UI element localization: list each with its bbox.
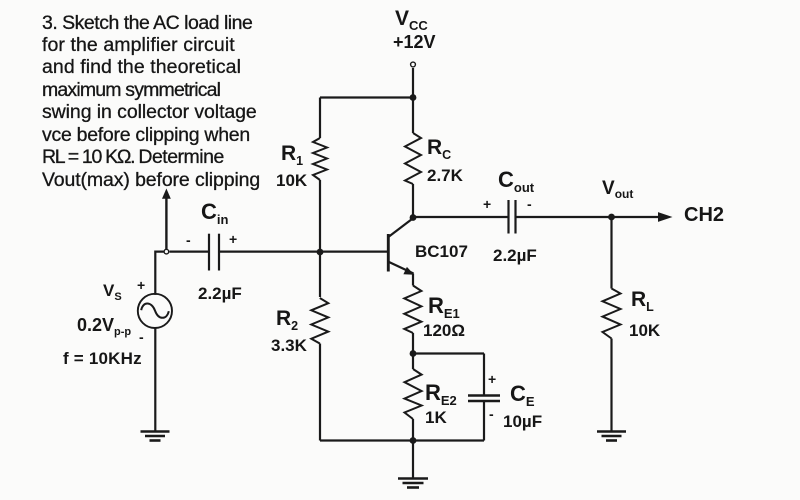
wire: emitter to RE1	[412, 274, 414, 286]
wire: Cout to Vout node	[517, 216, 612, 218]
label 1K (RE2)	[425, 408, 447, 428]
label 2.2uF (Cout)	[493, 246, 537, 266]
label R1	[281, 142, 303, 168]
node: source output terminal (open circle)	[164, 249, 169, 254]
wire: bottom horizontal rail	[320, 439, 484, 441]
wire: R2 bottom to bottom rail	[319, 344, 321, 441]
wire: RL bottom to ground	[610, 339, 612, 432]
wire: Vout node to CH2 arrow	[612, 216, 661, 218]
Vcc terminal circle	[411, 62, 416, 67]
label RE2	[425, 380, 457, 408]
label CH2	[684, 204, 724, 227]
resistor R2 (zigzag)	[311, 298, 328, 344]
label 2.7K (Rc)	[427, 166, 463, 186]
label 10uF (CE)	[503, 412, 542, 432]
node: Vout node	[608, 214, 615, 221]
transistor Q1 emitter lead	[389, 262, 414, 274]
node: base junction	[317, 249, 324, 256]
wire: junction down to Rc top	[412, 98, 414, 134]
wire: RE junction down to RE2	[412, 354, 414, 370]
label BC107	[415, 242, 468, 262]
label Vcc	[395, 7, 428, 33]
wire: top horizontal rail to R1 branch	[320, 96, 413, 98]
label R2	[276, 307, 298, 333]
label plus (Cout)	[483, 196, 491, 212]
label 0.2Vp-p	[77, 315, 131, 338]
capacitor CE bottom plate	[468, 400, 500, 402]
transistor Q1 emitter arrowhead	[403, 267, 414, 275]
resistor R1 (zigzag)	[313, 138, 327, 180]
wire: Vout node down to RL	[610, 217, 612, 289]
label 10K (RL)	[629, 321, 660, 341]
ground (below RL)	[597, 432, 626, 441]
wire: CE bottom plate to bottom rail	[483, 402, 485, 441]
transistor Q1 collector lead	[389, 218, 414, 237]
capacitor CE top plate	[468, 394, 500, 396]
capacitor Cout right plate	[514, 200, 516, 234]
label Rc	[427, 136, 451, 162]
wire: R1 branch down from top rail	[319, 98, 321, 139]
label plus (CE)	[488, 371, 496, 387]
label Cin	[201, 199, 228, 227]
label minus (Cin)	[186, 232, 191, 248]
arrowhead to CH2	[658, 212, 673, 222]
label minus (CE)	[489, 406, 494, 422]
label Vout	[602, 178, 633, 201]
node: bottom rail junction	[410, 437, 417, 444]
wire: Rc bottom to collector node	[412, 184, 414, 218]
wire: R1 bottom to base junction	[319, 180, 321, 297]
wire: RE junction to CE branch	[413, 352, 484, 354]
label 3.3K (R2)	[271, 336, 307, 356]
resistor RE2 (zigzag)	[405, 369, 422, 419]
resistor RE1 (zigzag)	[404, 286, 421, 334]
label minus (VS)	[139, 329, 144, 345]
label f = 10KHz	[63, 349, 142, 369]
wire: source node to source top	[155, 252, 163, 295]
label RE1	[428, 293, 460, 321]
label 120 ohm (RE1)	[423, 321, 465, 341]
wire: Vcc terminal to top junction	[412, 68, 414, 98]
wire: source bottom to ground	[154, 328, 156, 431]
problem statement text	[42, 12, 260, 192]
label 10K (R1)	[276, 171, 307, 191]
capacitor Cin right plate	[218, 234, 220, 271]
label minus (Cout)	[527, 196, 532, 212]
probe arrow (up) at source node	[165, 197, 167, 249]
wire: collector node to Cout	[413, 216, 508, 218]
label CE	[510, 381, 535, 409]
transistor Q1 BC107: base bar	[387, 234, 390, 272]
label VS	[103, 281, 122, 303]
source VS (sine source circle)	[138, 294, 172, 328]
label plus (VS)	[137, 277, 145, 293]
node: collector node	[410, 214, 417, 221]
wire: Cin to base	[220, 251, 388, 253]
wire: RE2 bottom to bottom rail	[412, 419, 414, 441]
wire: RE1 bottom to RE junction	[412, 333, 414, 354]
node: Vcc junction	[410, 94, 417, 101]
label +12V	[393, 32, 436, 53]
wire: source node to Cin	[170, 251, 209, 253]
label Cout	[498, 167, 534, 195]
node: RE junction	[410, 350, 417, 357]
wire: bottom junction down to ground	[412, 441, 414, 479]
label RL	[631, 288, 654, 314]
resistor Rc (zigzag)	[405, 133, 421, 184]
ground (main, below RE2)	[398, 479, 428, 488]
ground (below source)	[141, 432, 170, 441]
capacitor Cout left plate	[507, 200, 509, 234]
label 2.2uF (Cin)	[198, 284, 242, 304]
capacitor Cin left plate	[208, 234, 210, 271]
label plus (Cin)	[229, 231, 237, 247]
wire: CE branch down to CE top plate	[483, 354, 485, 396]
resistor RL (zigzag)	[603, 289, 621, 339]
